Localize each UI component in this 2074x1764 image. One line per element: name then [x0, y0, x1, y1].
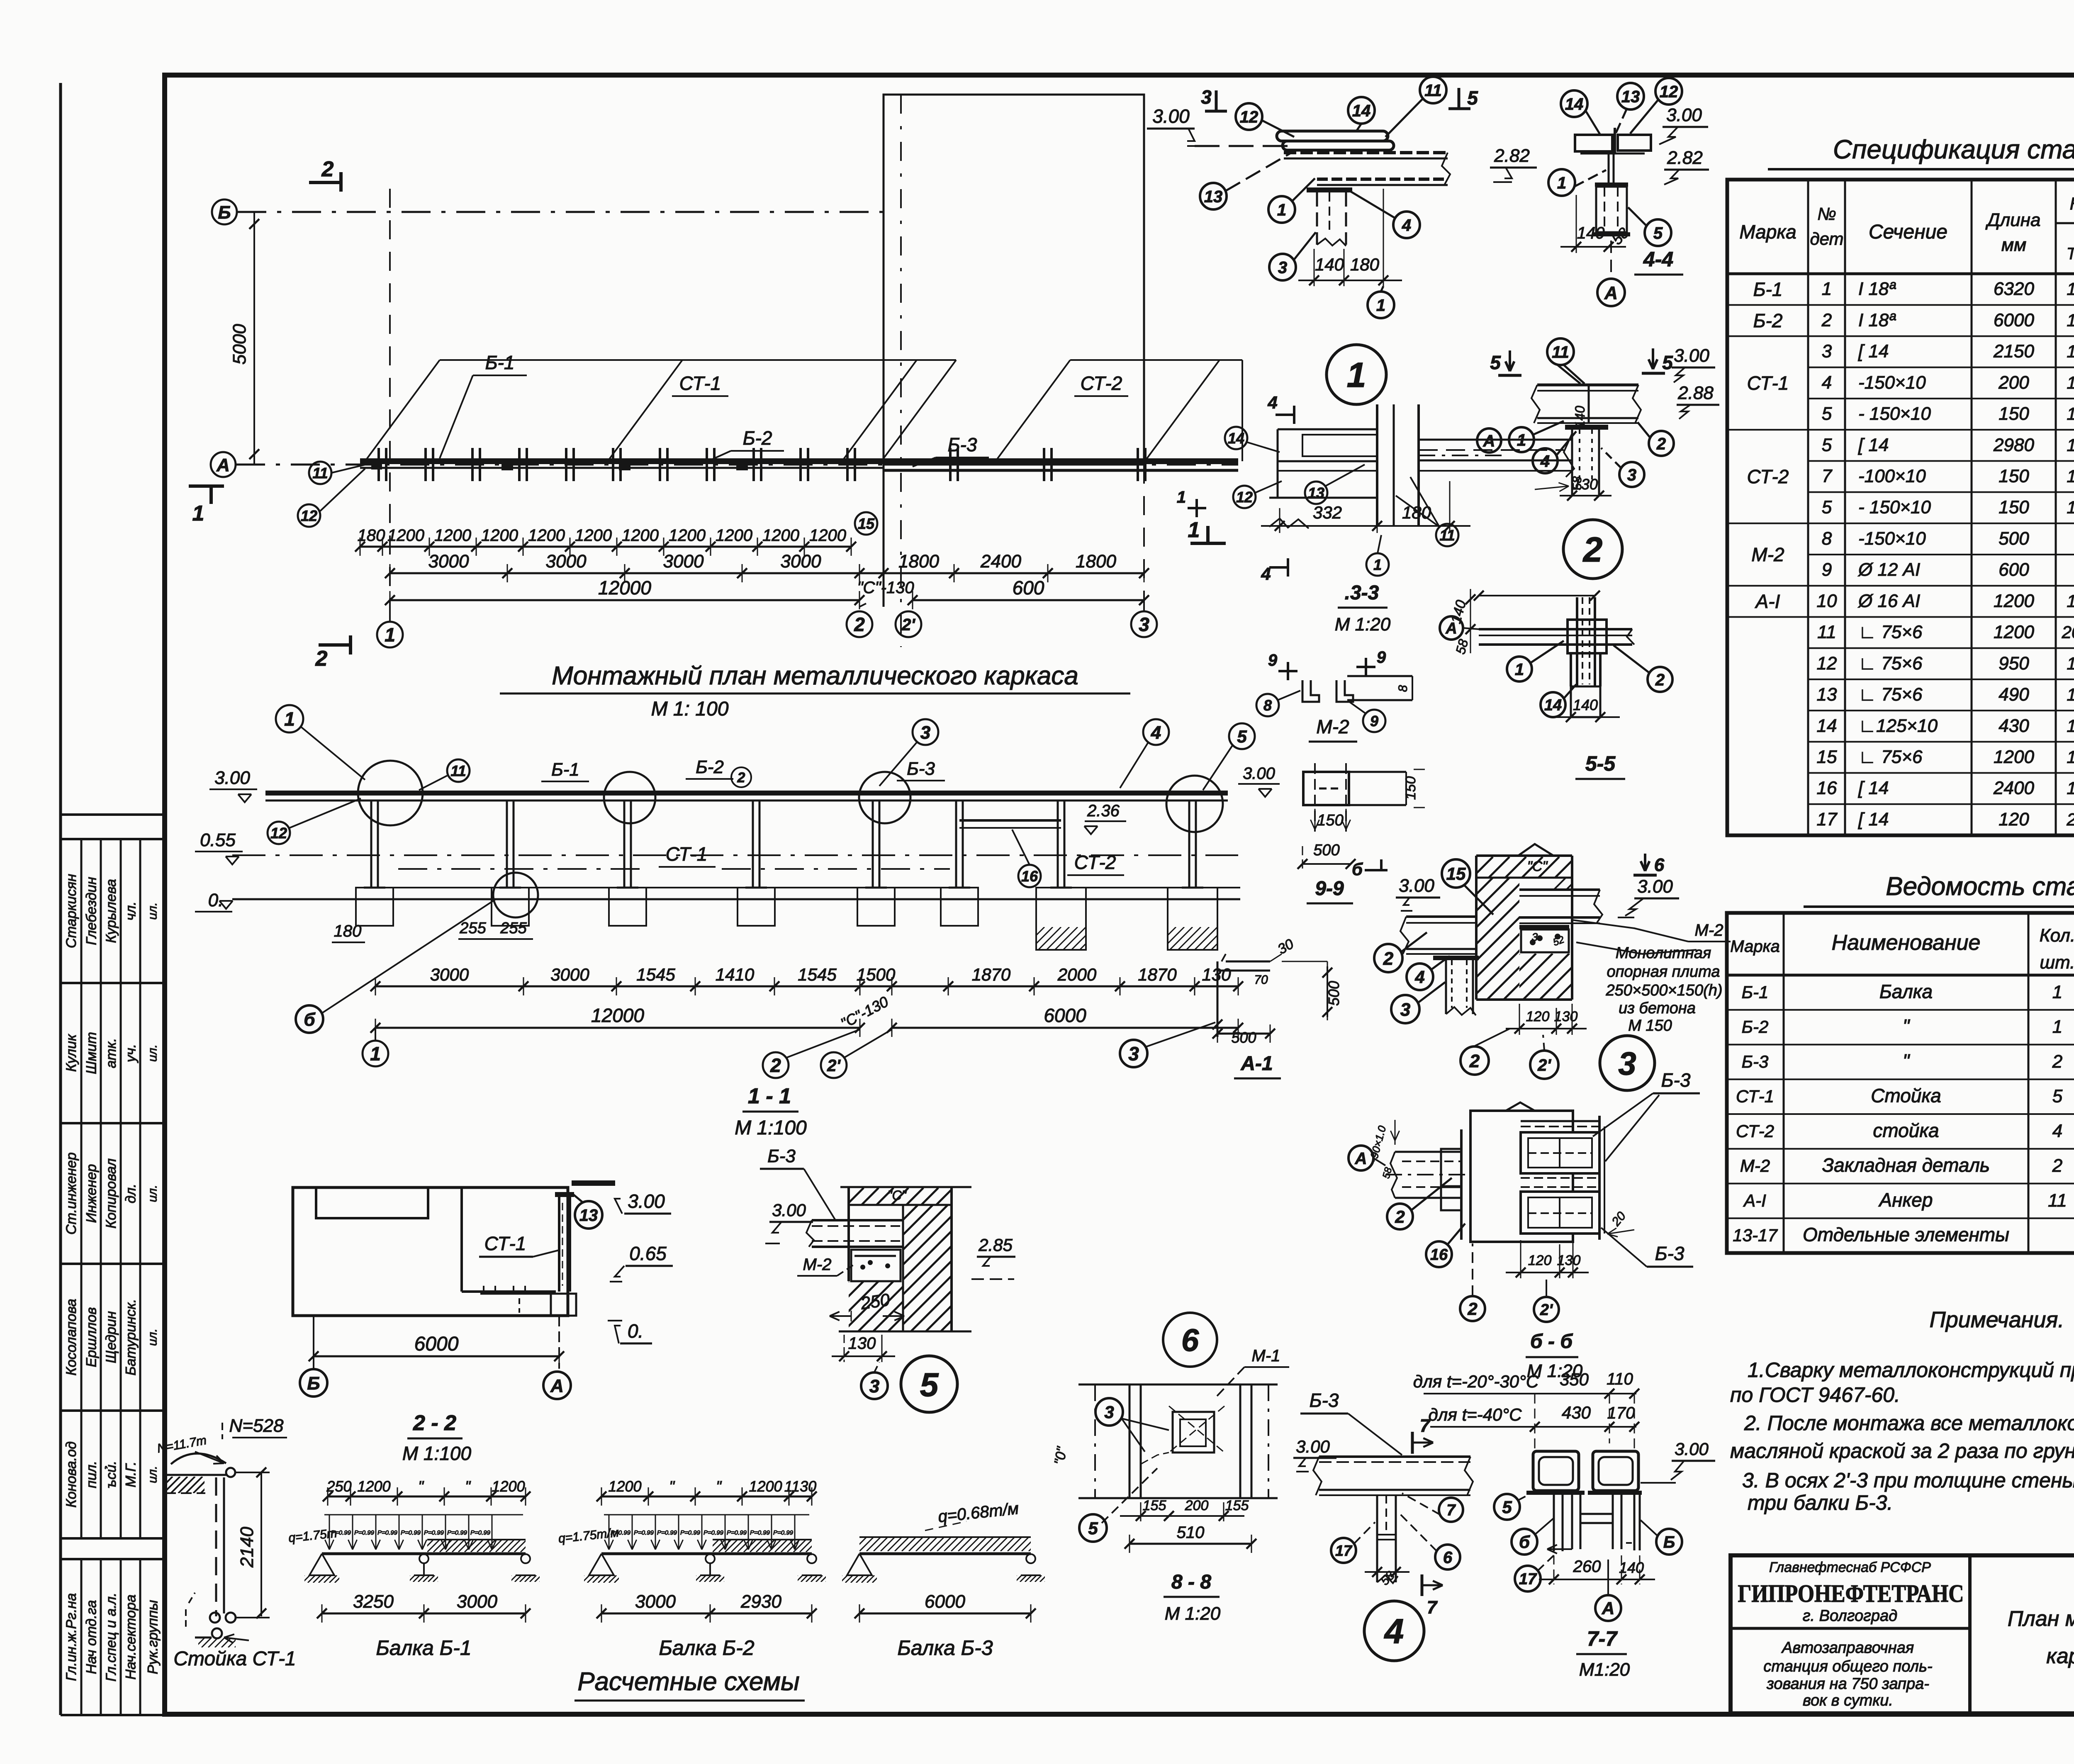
svg-text:P=0.99: P=0.99 — [401, 1529, 421, 1536]
svg-text:4: 4 — [1540, 452, 1550, 470]
svg-text:180: 180 — [358, 526, 385, 545]
svg-text:6000: 6000 — [414, 1333, 459, 1355]
svg-text:∟ 75×6: ∟ 75×6 — [1858, 653, 1923, 674]
svg-text:1200: 1200 — [622, 526, 659, 545]
svg-text:4: 4 — [1414, 967, 1424, 987]
svg-text:∟ 75×6: ∟ 75×6 — [1858, 747, 1923, 767]
svg-text:150: 150 — [1999, 404, 2029, 424]
svg-text:Стойка СТ-1: Стойка СТ-1 — [173, 1648, 296, 1670]
svg-text:для t=-20°-30°С: для t=-20°-30°С — [1413, 1372, 1539, 1391]
svg-text:Б-2: Б-2 — [696, 757, 724, 777]
svg-text:P=0.99: P=0.99 — [657, 1529, 677, 1536]
plan: main beam line on axis A — [360, 458, 1238, 464]
svg-text:2150: 2150 — [1993, 341, 2034, 362]
svg-text:5: 5 — [1467, 87, 1478, 109]
svg-text:": " — [1903, 1050, 1911, 1072]
detail 3-3: beam plates — [1278, 428, 1377, 431]
detail 8-8: dims — [1140, 1502, 1142, 1521]
svg-text:Щедрин: Щедрин — [103, 1311, 119, 1363]
svg-text:20: 20 — [2062, 623, 2074, 642]
svg-text:1200: 1200 — [669, 526, 706, 545]
detail 7-7: H assembly below — [1553, 1495, 1555, 1551]
plan: adjacent building wall rectangle — [884, 95, 1144, 465]
svg-text:Б-1: Б-1 — [551, 759, 579, 780]
svg-text:г. Волгоград: г. Волгоград — [1803, 1607, 1897, 1625]
svg-text:4: 4 — [1384, 1612, 1404, 1651]
detail 7-7: callouts — [1494, 1494, 1520, 1520]
section 1-1: footings — [356, 888, 393, 926]
section 1-1: callout numbered circles — [276, 705, 303, 732]
node 1: big circle — [1327, 345, 1386, 404]
svg-text:2 - 2: 2 - 2 — [413, 1411, 456, 1435]
svg-text:14: 14 — [1565, 95, 1584, 113]
svg-text:8 - 8: 8 - 8 — [1171, 1571, 1211, 1593]
svg-text:Кол.: Кол. — [2070, 194, 2074, 213]
svg-text:600: 600 — [1999, 560, 2029, 580]
svg-text:P=0.99: P=0.99 — [424, 1529, 444, 1536]
stand CT-1 bottom hinges — [210, 1613, 220, 1623]
svg-text:Кулик: Кулик — [63, 1034, 79, 1072]
svg-text:130: 130 — [1557, 1253, 1581, 1268]
svg-text:3: 3 — [1201, 86, 1212, 108]
svg-text:[ 14: [ 14 — [1858, 341, 1889, 362]
svg-text:130: 130 — [1554, 1009, 1578, 1024]
svg-text:150: 150 — [1999, 497, 2029, 518]
svg-text:3: 3 — [1627, 466, 1636, 484]
detail 7-7: two box sections — [1533, 1451, 1579, 1491]
svg-text:5000: 5000 — [229, 324, 250, 365]
node 16: bolt stubs — [1441, 1149, 1461, 1186]
plan: dim 5000 between axes — [253, 212, 255, 465]
svg-text:13-17: 13-17 — [1733, 1226, 1778, 1245]
svg-text:7: 7 — [1446, 1502, 1456, 1519]
svg-text:5-5: 5-5 — [1585, 752, 1616, 775]
plan: section mark 2 (bottom) — [319, 643, 351, 647]
svg-text:Марка: Марка — [1739, 221, 1796, 243]
svg-text:"С": "С" — [887, 1188, 907, 1203]
svg-text:1: 1 — [2067, 747, 2074, 766]
svg-text:1: 1 — [1188, 518, 1200, 542]
svg-text:Гл.спец и а.л.: Гл.спец и а.л. — [103, 1593, 119, 1681]
spec table grid — [1727, 180, 2074, 835]
svg-text:шт.: шт. — [2040, 952, 2074, 973]
node 16: right end plate — [1598, 1116, 1601, 1240]
node 3: wall outline — [1475, 856, 1478, 1000]
svg-text:11: 11 — [1439, 527, 1455, 544]
svg-text:Кол.: Кол. — [2040, 925, 2074, 946]
svg-text:-150×10: -150×10 — [1858, 372, 1926, 393]
svg-text:1870: 1870 — [972, 965, 1011, 984]
svg-text:М 150: М 150 — [1628, 1017, 1672, 1034]
svg-text:P=0.99: P=0.99 — [704, 1529, 724, 1536]
svg-text:2.82: 2.82 — [1494, 146, 1530, 166]
detail A-1: anchor outline — [1226, 961, 1270, 963]
svg-text:0.: 0. — [628, 1320, 643, 1342]
svg-text:Б: Б — [218, 202, 231, 223]
svg-text:1: 1 — [2067, 654, 2074, 673]
svg-text:Анкер: Анкер — [1878, 1189, 1933, 1211]
svg-text:255: 255 — [500, 920, 527, 937]
svg-text:7: 7 — [1427, 1597, 1438, 1618]
svg-text:ил.: ил. — [146, 1044, 160, 1062]
node 4: callouts — [1439, 1498, 1463, 1522]
svg-text:3000: 3000 — [428, 551, 469, 572]
svg-text:4: 4 — [1822, 372, 1832, 393]
svg-text:Инженер: Инженер — [84, 1164, 100, 1223]
svg-text:Стойка: Стойка — [1871, 1085, 1941, 1107]
svg-text:М 1: 100: М 1: 100 — [651, 698, 729, 720]
plan: axis А — [211, 452, 236, 477]
svg-text:I 18ª: I 18ª — [1858, 279, 1896, 299]
svg-text:9: 9 — [1822, 560, 1832, 580]
svg-text:150: 150 — [1403, 776, 1419, 800]
svg-text:Отдельные элементы: Отдельные элементы — [1803, 1224, 2009, 1246]
svg-text:Ст.инженер: Ст.инженер — [63, 1152, 79, 1234]
svg-text:3.00: 3.00 — [1675, 1439, 1709, 1459]
vedomost grid — [1727, 913, 2074, 1253]
svg-text:М1:20: М1:20 — [1579, 1659, 1630, 1680]
svg-text:М-2: М-2 — [803, 1255, 832, 1274]
node 4: column below — [1376, 1495, 1378, 1582]
svg-text:СТ-1: СТ-1 — [1747, 372, 1789, 394]
svg-text:1200: 1200 — [434, 526, 471, 545]
svg-text:Ершллов: Ершллов — [84, 1307, 100, 1367]
svg-text:1200: 1200 — [387, 526, 424, 545]
svg-text:[ 14: [ 14 — [1858, 778, 1889, 798]
svg-text:Б-3: Б-3 — [1742, 1052, 1769, 1071]
svg-text:P=0.99: P=0.99 — [354, 1529, 375, 1536]
svg-text:180: 180 — [1350, 255, 1380, 274]
section 1-1: opening beam 16 — [959, 819, 1061, 822]
svg-text:ил.: ил. — [146, 903, 160, 920]
plan: splice squares — [501, 459, 513, 470]
svg-text:P=0.99: P=0.99 — [750, 1529, 770, 1536]
svg-text:А-1: А-1 — [1240, 1053, 1273, 1075]
temperature vertical dashes — [1534, 1394, 1536, 1452]
section 2-2: inner wall and floor — [460, 1187, 463, 1292]
svg-text:ъcủ.: ъcủ. — [103, 1461, 119, 1488]
detail 4-4: axis circle A — [1610, 241, 1612, 277]
svg-text:1: 1 — [1517, 431, 1526, 449]
svg-text:Б-2: Б-2 — [1753, 310, 1783, 331]
node 6 big circle — [1163, 1313, 1217, 1367]
svg-text:3: 3 — [920, 723, 930, 743]
svg-text:3.00: 3.00 — [1296, 1437, 1330, 1456]
svg-text:Марка: Марка — [1730, 937, 1779, 956]
svg-text:5: 5 — [1653, 224, 1663, 242]
svg-text:[ 14: [ 14 — [1858, 435, 1889, 455]
svg-text:СТ-2: СТ-2 — [1736, 1121, 1774, 1141]
svg-text:3.00: 3.00 — [1399, 876, 1434, 896]
detail 3-3: base — [1269, 497, 1377, 499]
svg-text:Б-2: Б-2 — [1742, 1017, 1769, 1037]
svg-text:11: 11 — [450, 762, 466, 779]
svg-text:Рук.группы: Рук.группы — [145, 1600, 161, 1674]
svg-text:А: А — [550, 1376, 564, 1396]
section 2-2: dim 6000 — [313, 1316, 314, 1369]
section mark b — [1365, 869, 1388, 871]
plan: dim row 3000s — [390, 572, 1144, 574]
plan: CT-1 roof plates (parallelograms) — [440, 359, 956, 361]
svg-text:Ведомость стальных элементов: Ведомость стальных элементов — [1886, 872, 2074, 901]
node 16: callouts — [1387, 1204, 1413, 1229]
svg-text:500: 500 — [1231, 1029, 1256, 1046]
node 5: callouts — [861, 1372, 888, 1399]
svg-text:пил.: пил. — [84, 1461, 100, 1488]
svg-text:200: 200 — [1185, 1498, 1209, 1513]
svg-text:3: 3 — [1104, 1402, 1114, 1422]
svg-text:3. В осях 2'-3 при толщ: 3. В осях 2'-3 при толщине стены 640 мм,… — [1742, 1469, 2074, 1492]
svg-text:чл.: чл. — [123, 901, 139, 920]
stand CT-1 dim 2140 — [235, 1472, 270, 1473]
svg-text:12: 12 — [1240, 108, 1259, 126]
svg-text:1: 1 — [1822, 279, 1832, 299]
node 2: dims — [1567, 491, 1577, 501]
svg-text:2140: 2140 — [237, 1527, 257, 1568]
node 3: right beam into wall — [1519, 888, 1600, 891]
svg-text:6000: 6000 — [1994, 310, 2034, 330]
svg-text:2: 2 — [1467, 1299, 1477, 1319]
svg-text:Нач отд.га: Нач отд.га — [84, 1600, 100, 1674]
spec table rows — [1808, 304, 2074, 306]
svg-text:9: 9 — [1268, 651, 1278, 669]
svg-text:14: 14 — [1352, 102, 1371, 120]
node 5: 130 dim — [844, 1335, 845, 1362]
svg-text:по ГОСТ 9467-60.: по ГОСТ 9467-60. — [1730, 1383, 1900, 1406]
svg-text:1: 1 — [2067, 779, 2074, 798]
svg-text:2: 2 — [321, 157, 334, 181]
svg-text:500: 500 — [1999, 528, 2029, 549]
svg-text:14: 14 — [1228, 430, 1244, 447]
svg-text:дл.: дл. — [123, 1184, 139, 1203]
svg-text:2: 2 — [1469, 1051, 1480, 1071]
svg-text:1200: 1200 — [608, 1478, 641, 1495]
node 16: Б-3 boxes right — [1521, 1120, 1599, 1122]
svg-text:2: 2 — [770, 1055, 781, 1076]
svg-text:3.00: 3.00 — [628, 1190, 665, 1212]
svg-text:110: 110 — [1607, 1370, 1633, 1388]
svg-text:16: 16 — [1817, 778, 1837, 798]
svg-text:3: 3 — [869, 1376, 879, 1397]
detail 4-4: dims — [1576, 195, 1577, 253]
node 3: left column below — [1445, 960, 1447, 1014]
svg-text:Балка Б-2: Балка Б-2 — [659, 1636, 754, 1659]
svg-text:Б-2: Б-2 — [743, 427, 772, 449]
svg-text:3000: 3000 — [663, 551, 704, 572]
svg-text:332: 332 — [1313, 503, 1342, 522]
svg-text:140: 140 — [1315, 255, 1344, 274]
svg-text:1: 1 — [1373, 556, 1382, 573]
svg-text:М 1:20: М 1:20 — [1335, 614, 1391, 635]
svg-text:мм: мм — [2001, 235, 2026, 255]
svg-text:Старкисян: Старкисян — [63, 874, 79, 948]
svg-text:СТ-2: СТ-2 — [1081, 372, 1122, 394]
svg-text:5: 5 — [1502, 1497, 1512, 1517]
svg-text:1200: 1200 — [492, 1478, 525, 1495]
node 3: M-2 pocket — [1521, 929, 1569, 952]
svg-text:3.00: 3.00 — [214, 768, 250, 788]
svg-text:2: 2 — [315, 647, 328, 671]
svg-text:3: 3 — [1139, 614, 1149, 635]
svg-text:4: 4 — [1151, 723, 1161, 743]
svg-text:2980: 2980 — [1993, 435, 2034, 455]
svg-text:М-2: М-2 — [1751, 544, 1784, 565]
section 1-1: roof beam — [265, 791, 1228, 796]
svg-text:120: 120 — [1526, 1009, 1550, 1024]
plan: section mark 2 (top) — [309, 181, 341, 184]
svg-text:P=0.99: P=0.99 — [377, 1529, 398, 1536]
node 16: axis A — [1349, 1146, 1373, 1170]
svg-text:140: 140 — [1619, 1559, 1644, 1576]
svg-text:2. После монтажа все металл: 2. После монтажа все металлоконструкции … — [1744, 1411, 2074, 1435]
svg-text:17: 17 — [1519, 1571, 1537, 1588]
svg-text:200: 200 — [1998, 372, 2029, 393]
svg-text:опорная плита: опорная плита — [1607, 963, 1720, 981]
svg-text:1 - 1: 1 - 1 — [748, 1084, 791, 1108]
svg-text:три балки Б-3.: три балки Б-3. — [1748, 1491, 1893, 1514]
svg-text:1: 1 — [2052, 1017, 2062, 1037]
svg-text:2: 2 — [1821, 310, 1832, 330]
svg-text:3.00: 3.00 — [1152, 105, 1190, 127]
svg-text:М 1:100: М 1:100 — [402, 1443, 472, 1464]
svg-text:250×500×150(h): 250×500×150(h) — [1605, 982, 1722, 999]
svg-text:6: 6 — [1443, 1548, 1453, 1567]
svg-text:11: 11 — [1552, 343, 1569, 361]
svg-text:5: 5 — [1490, 352, 1501, 373]
svg-text:Главнефтеснаб РСФСР: Главнефтеснаб РСФСР — [1769, 1560, 1931, 1575]
svg-text:М 1:100: М 1:100 — [735, 1117, 807, 1139]
svg-text:2.85: 2.85 — [978, 1235, 1013, 1255]
svg-text:М-2: М-2 — [1740, 1156, 1770, 1175]
node 3: dims 120 130 — [1519, 1004, 1520, 1035]
svg-text:Б-3: Б-3 — [767, 1146, 796, 1166]
svg-text:СТ-1: СТ-1 — [666, 843, 708, 865]
svg-text:Нач.сектора: Нач.сектора — [123, 1594, 139, 1679]
svg-text:950: 950 — [1999, 653, 2029, 674]
svg-text:3250: 3250 — [353, 1591, 394, 1612]
node 2: beam — [1537, 384, 1638, 387]
svg-text:Сечение: Сечение — [1869, 221, 1947, 243]
svg-text:2: 2 — [737, 770, 745, 786]
svg-text:1800: 1800 — [1076, 551, 1116, 572]
svg-text:350: 350 — [1560, 1370, 1589, 1389]
svg-text:Ø 12 АI: Ø 12 АI — [1857, 560, 1920, 580]
detail 7-7: dims 260 140 — [1553, 1555, 1555, 1584]
svg-text:12: 12 — [1817, 653, 1837, 674]
svg-text:1: 1 — [2067, 685, 2074, 704]
svg-text:13: 13 — [1204, 187, 1223, 206]
detail 4-4: I beam section — [1608, 153, 1610, 182]
svg-text:СТ-1: СТ-1 — [484, 1233, 526, 1254]
svg-text:11: 11 — [1817, 622, 1836, 642]
svg-text:9-9: 9-9 — [1315, 878, 1344, 900]
svg-text:P=0.99: P=0.99 — [470, 1529, 491, 1536]
node 4: beam — [1319, 1455, 1470, 1458]
svg-text:2': 2' — [1540, 1302, 1553, 1319]
svg-text:3.00: 3.00 — [772, 1200, 806, 1220]
detail 9-9: dims — [1315, 809, 1316, 830]
node 2: column below — [1571, 430, 1573, 496]
svg-text:2: 2 — [2066, 810, 2074, 829]
plan: callout circle 12 — [298, 504, 320, 527]
svg-text:5: 5 — [1822, 404, 1832, 424]
svg-text:250: 250 — [859, 1290, 891, 1313]
svg-text:": " — [418, 1478, 424, 1495]
svg-text:Батуринск.: Батуринск. — [123, 1299, 139, 1376]
node 1: column — [1316, 192, 1318, 245]
node 16: column body — [1470, 1111, 1573, 1242]
svg-text:1: 1 — [1376, 296, 1385, 314]
svg-text:14: 14 — [1817, 715, 1837, 736]
svg-text:3.00: 3.00 — [1243, 764, 1275, 783]
svg-text:13: 13 — [1621, 88, 1640, 106]
svg-text:Б-3: Б-3 — [1310, 1389, 1339, 1411]
detail 3-3: callouts — [1225, 427, 1247, 449]
node 5: beam from left — [812, 1219, 903, 1221]
svg-text:2: 2 — [2052, 1156, 2062, 1176]
svg-text:1200: 1200 — [716, 526, 752, 545]
title block frame — [1731, 1555, 2074, 1713]
svg-text:1: 1 — [1515, 660, 1524, 679]
section 1-1: callout rings — [358, 761, 423, 825]
svg-text:2930: 2930 — [740, 1591, 781, 1612]
svg-text:2': 2' — [901, 616, 915, 634]
svg-text:": " — [669, 1478, 675, 1495]
svg-text:2.82: 2.82 — [1667, 148, 1703, 168]
signature strip table — [61, 813, 165, 816]
svg-text:Расчетные схемы: Расчетные схемы — [577, 1667, 800, 1696]
svg-text:5: 5 — [1237, 727, 1247, 746]
svg-text:СТ-1: СТ-1 — [1736, 1087, 1774, 1106]
svg-text:дет: дет — [1810, 229, 1843, 248]
detail 7-7: axis A — [1607, 1560, 1609, 1595]
node 1: beam bottom flange — [1317, 178, 1448, 181]
node 2: big circle — [1563, 520, 1622, 579]
svg-text:2: 2 — [854, 614, 865, 635]
svg-text:Б-3: Б-3 — [1655, 1243, 1685, 1264]
svg-text:260: 260 — [1573, 1557, 1601, 1576]
svg-text:16: 16 — [1021, 868, 1038, 885]
detail 8-8: callouts — [1095, 1398, 1123, 1426]
svg-text:1: 1 — [1557, 174, 1566, 192]
svg-text:1200: 1200 — [1994, 591, 2034, 611]
node 5: wall outline — [840, 1186, 971, 1188]
svg-text:Б-3: Б-3 — [948, 434, 977, 455]
node 16: left flange plate — [1460, 1129, 1463, 1240]
svg-text:СТ-2: СТ-2 — [1747, 466, 1789, 487]
svg-text:130: 130 — [848, 1334, 876, 1353]
svg-text:1: 1 — [370, 1043, 381, 1065]
section 2-2: building outline — [293, 1187, 568, 1316]
section 1-1: grid circles — [375, 1029, 376, 1040]
svg-text:1: 1 — [2067, 310, 2074, 330]
svg-text:13: 13 — [579, 1206, 598, 1224]
svg-text:3.00: 3.00 — [1674, 346, 1709, 366]
svg-text:"С"-130: "С"-130 — [857, 579, 914, 597]
svg-text:из бетона: из бетона — [1619, 1000, 1696, 1017]
section 2-2: roof notch — [316, 1189, 428, 1218]
svg-text:2: 2 — [1395, 1207, 1405, 1226]
node 2: section marks 5 — [1509, 350, 1511, 371]
plan: dim row 12000 — [390, 599, 859, 601]
svg-text:1200: 1200 — [528, 526, 565, 545]
svg-text:М-1: М-1 — [1252, 1347, 1280, 1365]
svg-text:70: 70 — [1254, 973, 1268, 987]
plan: section mark 1 (right) — [1190, 542, 1226, 545]
svg-text:2400: 2400 — [980, 551, 1021, 572]
svg-text:1200: 1200 — [481, 526, 518, 545]
svg-text:А: А — [216, 455, 230, 475]
